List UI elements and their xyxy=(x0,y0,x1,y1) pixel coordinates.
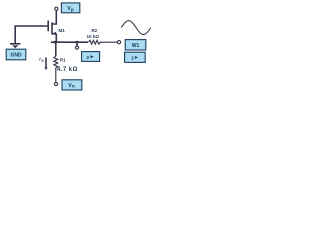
svg-text:10 kΩ: 10 kΩ xyxy=(86,34,99,39)
transistor M1 xyxy=(48,11,56,43)
W1 terminal circle xyxy=(117,41,120,44)
sine wave xyxy=(121,21,151,35)
ground xyxy=(10,44,21,48)
svg-text:1: 1 xyxy=(131,56,134,62)
svg-text:R1: R1 xyxy=(60,58,66,63)
node wire source row xyxy=(51,41,88,43)
current arrow xyxy=(45,58,47,68)
Vn box xyxy=(62,80,82,90)
drain terminal circle xyxy=(55,7,58,10)
svg-text:p: p xyxy=(71,7,74,12)
wire node to R1 xyxy=(55,42,57,56)
resistor R1 xyxy=(54,56,58,82)
svg-text:M1: M1 xyxy=(58,28,65,33)
svg-text:R2: R2 xyxy=(91,28,97,33)
svg-text:2: 2 xyxy=(86,55,89,61)
svg-text:4.7 kΩ: 4.7 kΩ xyxy=(57,67,78,73)
junction source node xyxy=(54,41,57,44)
svg-text:GND: GND xyxy=(10,53,22,59)
W1 box xyxy=(125,40,146,50)
wire gate to ground xyxy=(15,26,48,43)
scope 1+ box xyxy=(125,52,146,62)
Vn terminal circle xyxy=(54,82,57,85)
stub to scope terminal xyxy=(76,42,78,46)
scope 2+ box xyxy=(82,52,100,62)
svg-text:W1: W1 xyxy=(132,43,140,49)
Vp terminal box xyxy=(61,3,79,13)
GND terminal box xyxy=(6,49,26,60)
resistor R2 xyxy=(89,40,118,44)
scope terminal circle xyxy=(75,46,78,49)
junction scope node xyxy=(76,41,79,44)
svg-text:n: n xyxy=(72,84,75,89)
